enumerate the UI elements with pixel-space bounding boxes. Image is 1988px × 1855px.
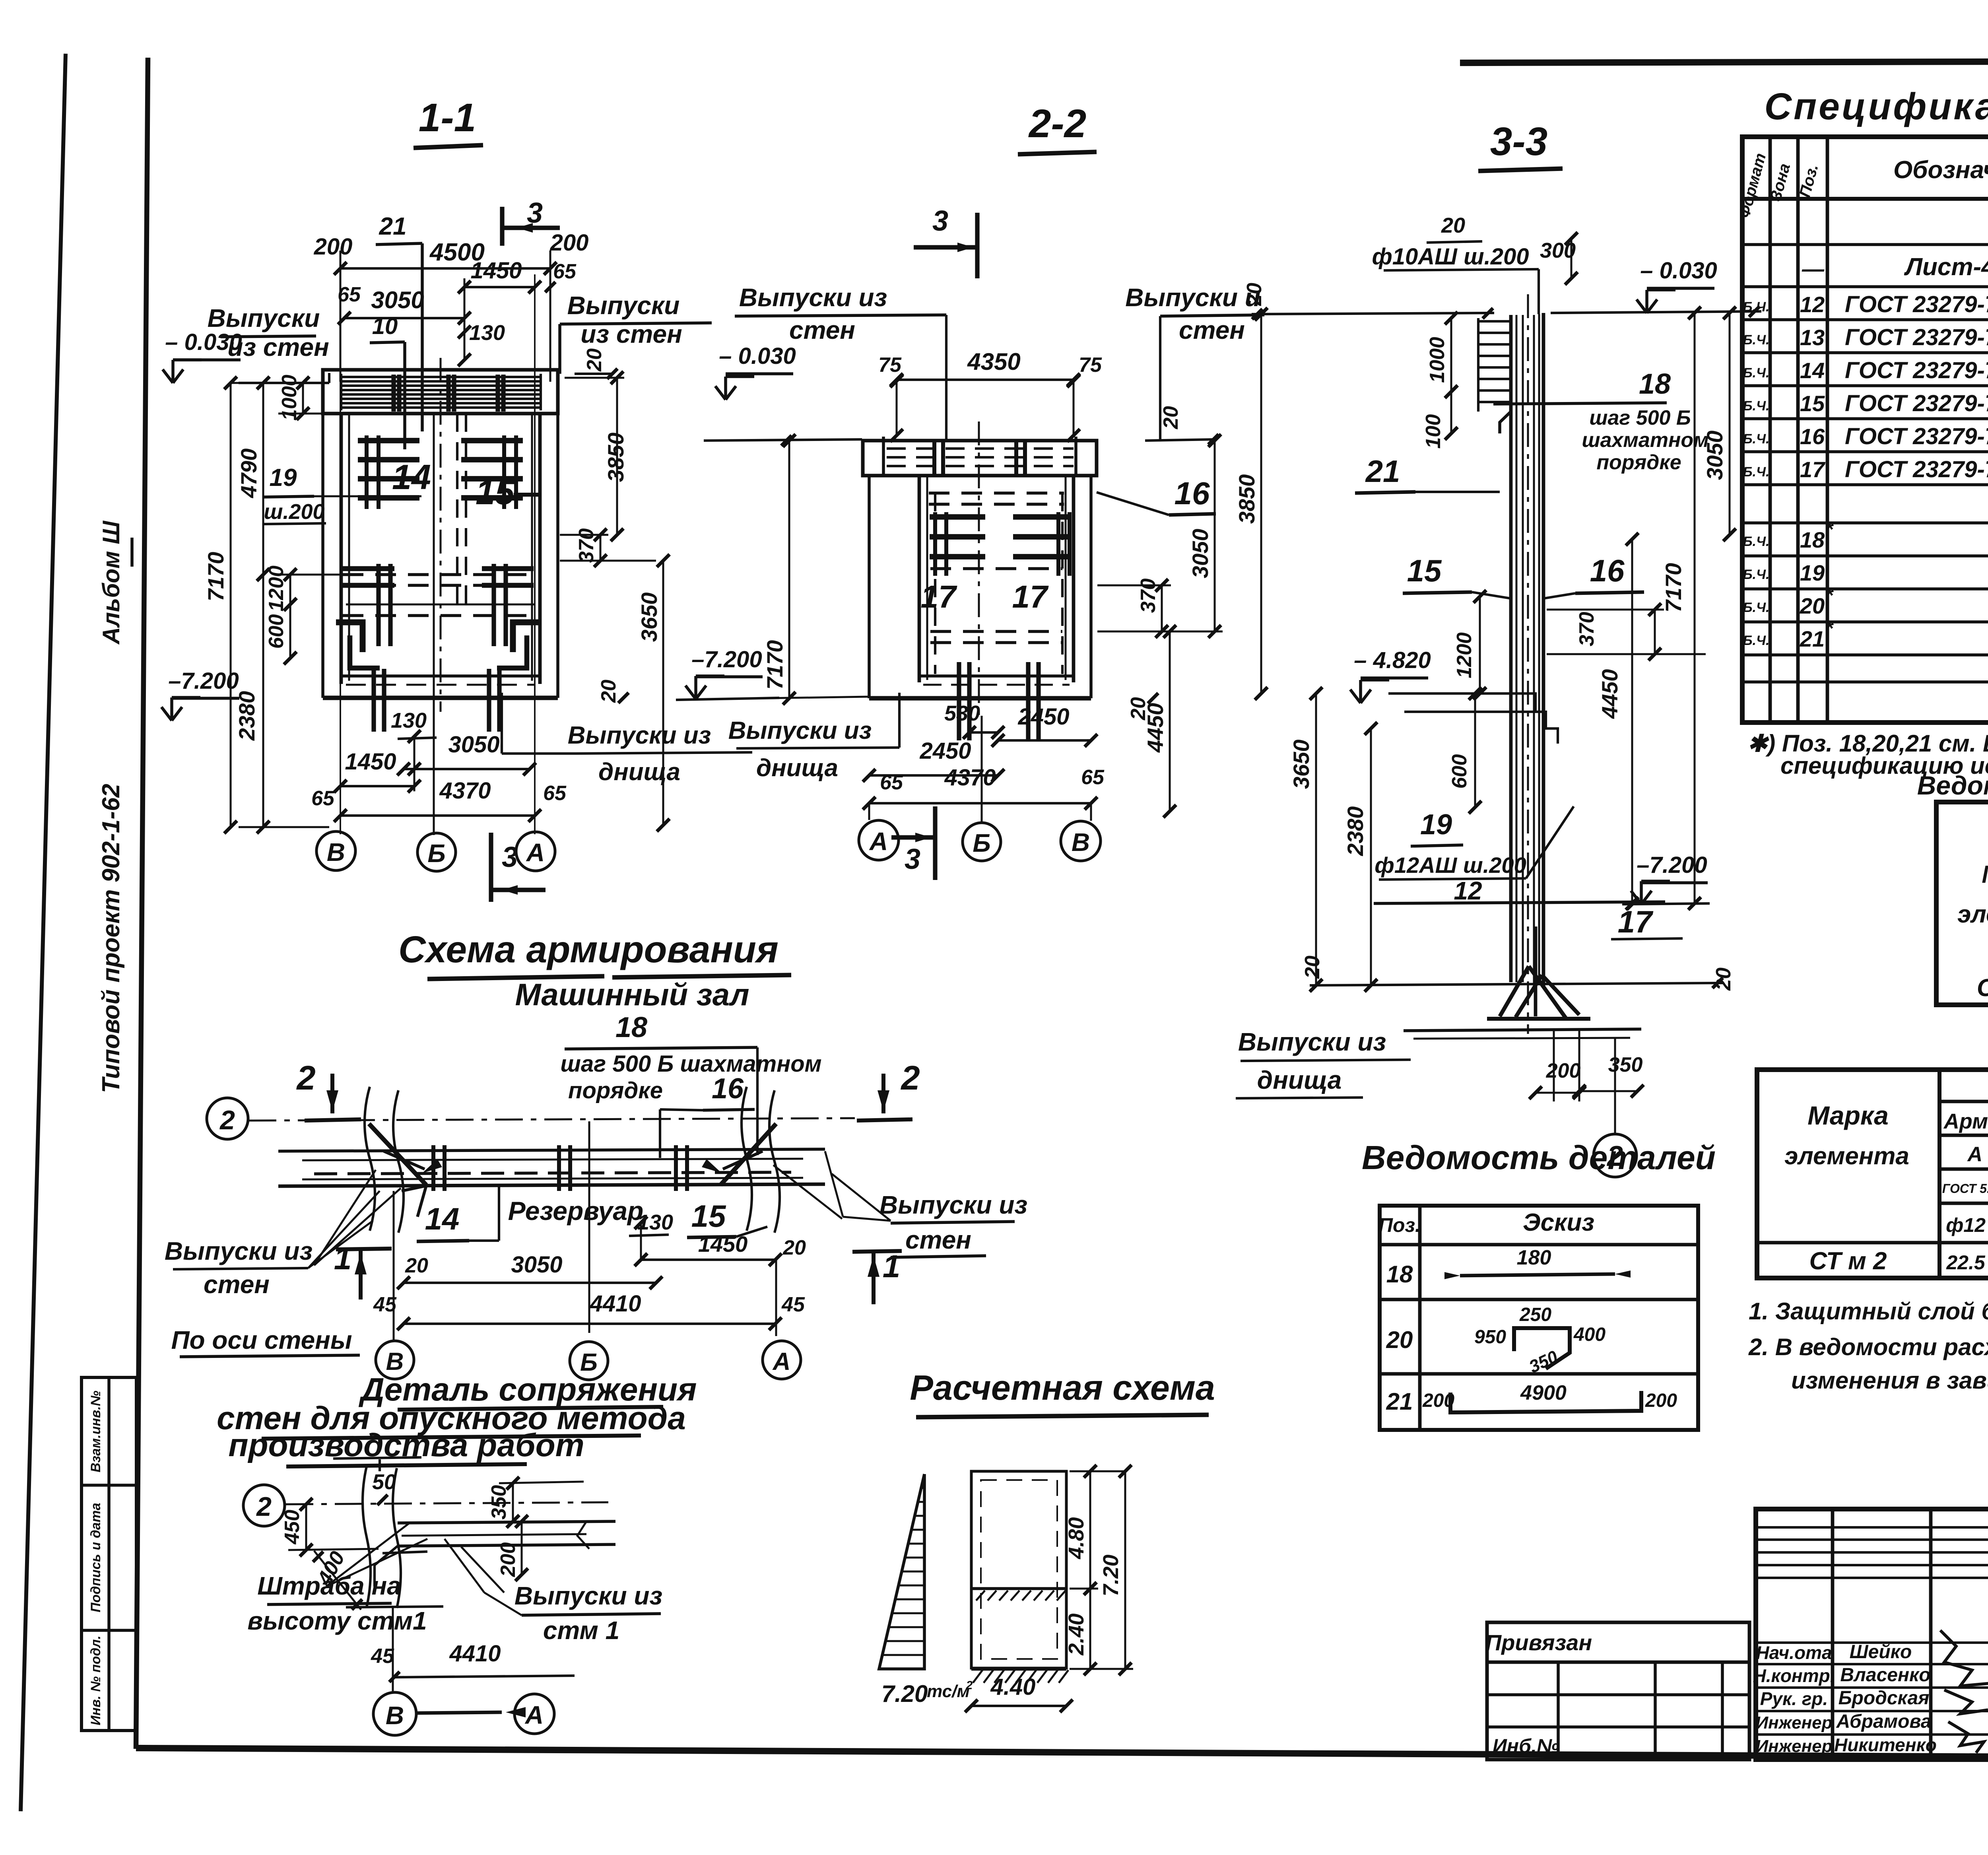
- svg-text:20: 20: [583, 348, 606, 372]
- svg-text:Штраба на: Штраба на: [257, 1571, 401, 1600]
- svg-text:2: 2: [966, 1679, 973, 1692]
- svg-text:1450: 1450: [698, 1231, 748, 1257]
- svg-text:3: 3: [932, 205, 948, 237]
- svg-text:Б.Ч.: Б.Ч.: [1743, 299, 1769, 315]
- bottom dowel pairs: [371, 669, 376, 732]
- armatura klassa / prokat marki: [1939, 1134, 1988, 1137]
- svg-text:Альбом Ш: Альбом Ш: [98, 521, 124, 645]
- svg-text:Схема армирования: Схема армирования: [398, 928, 779, 971]
- svg-text:370: 370: [575, 528, 598, 563]
- svg-text:3650: 3650: [1289, 740, 1314, 789]
- centre dash-dot 2-2: [978, 422, 980, 716]
- section 2-2 top slab: [863, 441, 1097, 476]
- axis circle V plan: [376, 1341, 414, 1379]
- wall inner faces: [340, 414, 343, 684]
- svg-text:3: 3: [527, 197, 543, 229]
- svg-text:Н.контр.: Н.контр.: [1753, 1665, 1835, 1686]
- axis circle B plan: [570, 1342, 608, 1380]
- plan rebar ticks: [431, 1145, 435, 1191]
- svg-text:7170: 7170: [203, 552, 228, 602]
- svg-text:370: 370: [1575, 612, 1598, 647]
- axis circle V 2-2: [1061, 821, 1101, 861]
- svg-text:200: 200: [1546, 1059, 1581, 1082]
- svg-text:130: 130: [469, 321, 505, 345]
- svg-text:20: 20: [782, 1236, 806, 1259]
- lower dowels right: [491, 564, 496, 646]
- svg-text:ф12АШ ш.200: ф12АШ ш.200: [1375, 853, 1526, 878]
- svg-text:–7.200: –7.200: [1637, 852, 1707, 878]
- svg-text:1: 1: [883, 1249, 901, 1284]
- svg-text:3: 3: [502, 841, 518, 873]
- svg-text:Взам.инв.№: Взам.инв.№: [88, 1391, 103, 1472]
- svg-text:ГОСТ 23279-78: ГОСТ 23279-78: [1845, 324, 1988, 350]
- wall column raschetnaya: [971, 1471, 1066, 1668]
- mesh ladder top 3-3: [1477, 318, 1479, 412]
- gost row prod: [1939, 1202, 1988, 1205]
- axis circle 2 detail: [243, 1485, 285, 1526]
- level line top 3-3 left: [1252, 313, 1494, 314]
- svg-text:Типовой проект 902-1-62: Типовой проект 902-1-62: [97, 784, 125, 1093]
- svg-text:1200: 1200: [265, 565, 288, 612]
- svg-text:ГОСТ 23279-78: ГОСТ 23279-78: [1845, 357, 1988, 383]
- svg-text:днища: днища: [598, 758, 680, 786]
- svg-text:Нач.ота: Нач.ота: [1756, 1642, 1832, 1663]
- svg-text:20: 20: [597, 680, 620, 703]
- svg-text:4790: 4790: [236, 449, 261, 499]
- svg-text:530: 530: [944, 701, 980, 725]
- svg-text:А: А: [524, 1701, 544, 1729]
- detail hatch corner: [375, 1546, 398, 1587]
- svg-text:1-1: 1-1: [419, 95, 476, 140]
- svg-text:Инв. № подл.: Инв. № подл.: [88, 1636, 103, 1725]
- svg-text:200: 200: [1645, 1390, 1677, 1411]
- svg-text:4350: 4350: [967, 348, 1020, 375]
- wall 3-3: [1509, 315, 1513, 982]
- svg-text:250: 250: [1519, 1304, 1551, 1325]
- left gusset plan: [369, 1124, 426, 1185]
- svg-text:В: В: [327, 838, 345, 866]
- specification header row: [1742, 197, 1988, 201]
- svg-text:350: 350: [1608, 1053, 1643, 1076]
- svg-text:22.5: 22.5: [1946, 1251, 1986, 1274]
- svg-text:изменения в зависимости от мар: изменения в зависимости от марки насоса.: [1791, 1367, 1988, 1394]
- svg-text:100: 100: [1422, 414, 1445, 449]
- svg-text:А: А: [772, 1348, 791, 1375]
- svg-text:*: *: [1825, 584, 1834, 607]
- svg-text:Б.Ч.: Б.Ч.: [1743, 365, 1769, 381]
- svg-text:Шейко: Шейко: [1850, 1641, 1912, 1663]
- svg-text:14: 14: [1800, 358, 1825, 383]
- svg-text:1450: 1450: [345, 749, 396, 775]
- wall foot bracing 3-3: [1500, 966, 1529, 1016]
- level line -7.200 3-3: [1622, 903, 1710, 904]
- svg-text:Б.Ч.: Б.Ч.: [1743, 567, 1769, 582]
- svg-text:17: 17: [1800, 457, 1826, 482]
- svg-text:Б.Ч.: Б.Ч.: [1743, 332, 1769, 348]
- bottom slab lines 2-2: [919, 674, 1074, 678]
- svg-text:200: 200: [550, 230, 589, 256]
- bottom line 3-3 left: [1310, 983, 1723, 985]
- axis circle A detail: [514, 1694, 554, 1734]
- svg-text:17: 17: [1012, 579, 1049, 614]
- svg-text:15: 15: [1407, 553, 1442, 588]
- svg-text:Резервуар: Резервуар: [508, 1196, 644, 1226]
- svg-text:4450: 4450: [1597, 669, 1622, 719]
- svg-text:Марка: Марка: [1982, 861, 1988, 888]
- svg-text:75: 75: [878, 354, 902, 377]
- drawing frame left border: [136, 58, 148, 1749]
- svg-text:18: 18: [615, 1012, 647, 1043]
- lower dowels left: [376, 564, 381, 646]
- svg-text:130: 130: [391, 709, 427, 732]
- svg-text:4370: 4370: [944, 765, 996, 791]
- svg-text:4.40: 4.40: [990, 1674, 1036, 1700]
- interior dashed mesh verticals: [456, 414, 458, 604]
- dia row prod: [1939, 1241, 1988, 1245]
- svg-text:16: 16: [1800, 424, 1825, 449]
- svg-text:Инб.№: Инб.№: [1493, 1735, 1559, 1757]
- svg-text:Выпуски и: Выпуски и: [1125, 283, 1260, 312]
- svg-text:ГОСТ 5.1459-72: ГОСТ 5.1459-72: [1942, 1181, 1988, 1196]
- svg-text:Б.Ч.: Б.Ч.: [1743, 431, 1769, 447]
- svg-text:65: 65: [311, 787, 335, 810]
- bottom dowels 2-2: [957, 662, 961, 740]
- svg-text:днища: днища: [1257, 1066, 1342, 1094]
- privyazan table: [1487, 1622, 1749, 1760]
- svg-text:18: 18: [1800, 527, 1825, 552]
- level line -0.030 sec 1-1: [239, 382, 329, 384]
- svg-text:–7.200: –7.200: [168, 668, 239, 694]
- svg-text:19: 19: [270, 464, 297, 491]
- title block name rows: [1756, 1641, 1988, 1644]
- svg-text:стм 1: стм 1: [543, 1616, 619, 1645]
- svg-text:ГОСТ 23279-78: ГОСТ 23279-78: [1845, 291, 1988, 317]
- svg-text:20: 20: [1800, 593, 1825, 618]
- svg-text:Б.Ч.: Б.Ч.: [1743, 464, 1769, 480]
- svg-text:2-2: 2-2: [1028, 101, 1087, 146]
- svg-text:шаг 500 Б: шаг 500 Б: [1589, 406, 1691, 429]
- svg-text:В: В: [386, 1701, 404, 1730]
- svg-text:45: 45: [781, 1293, 805, 1316]
- axis circle B 2-2: [963, 823, 1001, 861]
- right break curve plan: [742, 1087, 752, 1231]
- svg-text:200: 200: [497, 1542, 520, 1577]
- svg-text:4.80: 4.80: [1064, 1517, 1088, 1559]
- svg-text:12: 12: [1454, 876, 1482, 905]
- svg-text:Расчетная схема: Расчетная схема: [910, 1368, 1215, 1407]
- svg-text:Выпуски из: Выпуски из: [514, 1581, 662, 1610]
- svg-text:19: 19: [1800, 560, 1825, 585]
- wall centerline axis A: [534, 274, 536, 834]
- svg-text:1000: 1000: [1426, 337, 1449, 383]
- section mark 3 bottom: [489, 833, 493, 902]
- svg-text:600: 600: [1448, 754, 1471, 789]
- svg-text:21: 21: [1386, 1388, 1413, 1415]
- bottom slab lines: [341, 674, 540, 678]
- svg-text:50: 50: [372, 1470, 396, 1494]
- axis circle V: [316, 831, 355, 870]
- svg-text:20: 20: [1159, 406, 1182, 429]
- detail leaders: [326, 1523, 410, 1587]
- svg-text:7170: 7170: [762, 640, 787, 690]
- svg-text:ш.200: ш.200: [264, 500, 324, 524]
- detail horizontal band: [398, 1521, 615, 1523]
- svg-text:Привязан: Привязан: [1485, 1630, 1592, 1655]
- svg-text:Выпуски из: Выпуски из: [728, 717, 872, 744]
- interior lower dashed 2-2: [930, 567, 1062, 570]
- detail axis arrow: [417, 1712, 502, 1713]
- svg-text:– 0.030: – 0.030: [165, 329, 242, 355]
- vedomost raskhoda table frame: [1936, 802, 1988, 1005]
- svg-text:стен: стен: [1179, 316, 1245, 344]
- svg-text:элемента: элемента: [1784, 1142, 1909, 1170]
- svg-text:Обозначение: Обозначение: [1893, 156, 1988, 184]
- svg-text:400: 400: [1573, 1324, 1606, 1345]
- sheet scan edge: [21, 54, 66, 1811]
- drawing frame top border: [1460, 60, 1988, 63]
- svg-text:Бродская: Бродская: [1839, 1688, 1930, 1709]
- svg-text:– 4.820: – 4.820: [1354, 647, 1431, 673]
- svg-text:А: А: [869, 827, 888, 856]
- axis circle A 2-2: [859, 820, 899, 860]
- plan axis lines: [393, 1191, 395, 1341]
- step in wall 3-3: [1500, 412, 1511, 433]
- svg-text:стен: стен: [789, 316, 855, 344]
- svg-text:Б: Б: [973, 829, 990, 857]
- title block left thin rows: [1756, 1526, 1988, 1529]
- svg-text:20: 20: [1127, 697, 1150, 721]
- svg-text:2: 2: [900, 1059, 920, 1097]
- svg-text:СТ м 2: СТ м 2: [1809, 1247, 1887, 1275]
- svg-text:3-3: 3-3: [1490, 119, 1548, 164]
- svg-text:Б.Ч.: Б.Ч.: [1743, 398, 1769, 414]
- svg-text:14: 14: [425, 1201, 460, 1236]
- svg-text:20: 20: [1243, 283, 1266, 306]
- svg-text:–7.200: –7.200: [691, 647, 762, 672]
- svg-text:65: 65: [880, 771, 903, 794]
- corner hook left: [350, 635, 380, 668]
- svg-text:3650: 3650: [637, 592, 662, 642]
- prodolzhenie table frame: [1757, 1070, 1988, 1278]
- svg-text:элемента: элемента: [1957, 901, 1988, 928]
- svg-text:4410: 4410: [449, 1641, 501, 1667]
- left break curve plan: [365, 1087, 375, 1231]
- svg-text:65: 65: [553, 260, 577, 283]
- svg-text:шаг 500 Б шахматном: шаг 500 Б шахматном: [560, 1051, 821, 1077]
- upper interior dashed 2-2: [929, 491, 1064, 495]
- svg-text:65: 65: [338, 283, 361, 306]
- svg-text:16: 16: [712, 1073, 744, 1105]
- svg-text:ф10АШ ш.200: ф10АШ ш.200: [1372, 244, 1529, 270]
- svg-text:*: *: [1825, 518, 1834, 541]
- svg-text:1: 1: [334, 1241, 352, 1276]
- svg-text:Эскиз: Эскиз: [1523, 1209, 1594, 1236]
- plan wall band lines: [302, 1159, 803, 1160]
- rebar cluster 2-2 left: [930, 514, 985, 520]
- wall column divider: [971, 1587, 1066, 1590]
- svg-text:4370: 4370: [439, 778, 491, 804]
- svg-text:17: 17: [921, 579, 957, 614]
- svg-text:3050: 3050: [371, 287, 424, 313]
- svg-text:Выпуски из: Выпуски из: [739, 283, 887, 312]
- svg-text:65: 65: [543, 782, 567, 805]
- svg-text:Машинный зал: Машинный зал: [515, 977, 749, 1012]
- svg-text:*: *: [1825, 617, 1834, 640]
- svg-text:Б.Ч.: Б.Ч.: [1743, 534, 1769, 549]
- svg-text:ГОСТ 23279-78: ГОСТ 23279-78: [1845, 456, 1988, 482]
- svg-text:Подпись и дата: Подпись и дата: [88, 1503, 103, 1612]
- load triangle: [879, 1474, 924, 1669]
- axis circle V detail: [373, 1692, 416, 1735]
- svg-text:днища: днища: [756, 754, 838, 782]
- svg-text:стен: стен: [204, 1270, 270, 1299]
- wall centre dash-dot 3-3: [1527, 294, 1529, 1034]
- specification row lines: [1742, 243, 1988, 246]
- corner hook right: [497, 635, 527, 668]
- svg-text:По оси стены: По оси стены: [171, 1326, 352, 1354]
- svg-text:Абрамова: Абрамова: [1836, 1711, 1931, 1732]
- vedomost detaley table: [1380, 1206, 1698, 1430]
- svg-text:20: 20: [1301, 956, 1324, 979]
- svg-text:20: 20: [1386, 1327, 1413, 1353]
- svg-text:—: —: [1802, 256, 1825, 281]
- plan small arrows: [422, 1159, 442, 1173]
- svg-text:Рук. гр.: Рук. гр.: [1760, 1688, 1828, 1709]
- svg-text:15: 15: [476, 472, 515, 512]
- rebar cluster left wall: [358, 438, 419, 443]
- svg-text:Лист-4: Лист-4: [1904, 253, 1988, 281]
- rebar cluster 2-2 right: [1013, 514, 1069, 520]
- svg-text:15: 15: [691, 1198, 726, 1233]
- ground hatch under column: [973, 1670, 982, 1683]
- svg-text:13: 13: [1800, 325, 1825, 350]
- svg-text:Б: Б: [427, 839, 445, 868]
- svg-text:В: В: [1072, 828, 1090, 857]
- slab rebar ticks 2-2: [932, 442, 936, 474]
- section 1-1 top slab: [323, 370, 558, 414]
- class row: [1939, 1167, 1988, 1171]
- svg-text:15: 15: [1800, 391, 1825, 416]
- rebar cluster right wall: [461, 438, 523, 443]
- section mark 3 bottom 2-2: [933, 806, 937, 880]
- svg-text:1450: 1450: [470, 258, 522, 284]
- svg-text:ф12: ф12: [1946, 1214, 1986, 1236]
- svg-text:600: 600: [265, 614, 288, 649]
- interior lower dashed rebar lines: [343, 573, 539, 576]
- svg-text:Поз.: Поз.: [1378, 1214, 1421, 1236]
- svg-text:ГОСТ 23279-78: ГОСТ 23279-78: [1845, 423, 1988, 449]
- axis B line (column B): [433, 414, 435, 835]
- svg-text:18: 18: [1639, 368, 1671, 400]
- svg-text:высоту стм1: высоту стм1: [247, 1606, 427, 1635]
- svg-text:3050: 3050: [511, 1252, 562, 1278]
- svg-text:2.40: 2.40: [1064, 1613, 1088, 1655]
- svg-text:65: 65: [1081, 766, 1105, 789]
- margin stamp table: [82, 1377, 136, 1731]
- svg-text:– 0.030: – 0.030: [1640, 258, 1717, 284]
- svg-text:Выпуски из: Выпуски из: [1238, 1028, 1386, 1056]
- svg-text:2450: 2450: [1017, 704, 1069, 730]
- svg-text:19: 19: [1420, 809, 1452, 841]
- svg-text:шахматном: шахматном: [1582, 429, 1708, 452]
- svg-text:– 0.030: – 0.030: [719, 343, 796, 369]
- svg-text:4410: 4410: [589, 1291, 641, 1317]
- svg-text:21: 21: [1365, 454, 1400, 489]
- svg-text:А Ш: А Ш: [1967, 1143, 1988, 1166]
- svg-text:Выпуски: Выпуски: [567, 291, 680, 320]
- svg-text:7.20: 7.20: [881, 1680, 928, 1707]
- svg-text:тс/м: тс/м: [927, 1682, 970, 1701]
- svg-text:950: 950: [1474, 1327, 1506, 1348]
- svg-text:2: 2: [219, 1105, 235, 1135]
- svg-text:21: 21: [1800, 626, 1825, 651]
- svg-text:16: 16: [1175, 476, 1210, 511]
- section 1-1 outer walls: [321, 414, 324, 698]
- axis circle 2 of 3-3: [1614, 1038, 1616, 1133]
- wall centerline axis B: [340, 274, 341, 834]
- svg-text:200: 200: [314, 234, 353, 260]
- axis circle A: [516, 832, 555, 871]
- svg-text:18: 18: [1386, 1261, 1413, 1288]
- svg-text:350: 350: [487, 1485, 511, 1520]
- svg-text:Арматура класса: Арматура класса: [1943, 1109, 1988, 1133]
- specification table frame: [1742, 137, 1988, 723]
- bottom slab band 3-3: [1404, 1029, 1641, 1031]
- vertical dash-dot centre: [440, 358, 442, 712]
- plan wall band top edge: [278, 1149, 825, 1151]
- title block outer: [1756, 1509, 1988, 1760]
- step ledge 3-3: [1388, 693, 1536, 712]
- axis circle B: [417, 833, 456, 871]
- svg-text:Б.Ч.: Б.Ч.: [1743, 633, 1769, 648]
- svg-text:20: 20: [1712, 967, 1735, 991]
- svg-text:180: 180: [1517, 1246, 1551, 1269]
- svg-text:Выпуски из: Выпуски из: [568, 722, 711, 749]
- svg-text:Инженер: Инженер: [1755, 1737, 1832, 1756]
- svg-text:370: 370: [1137, 579, 1160, 613]
- svg-text:А: А: [526, 838, 545, 867]
- svg-text:3850: 3850: [1234, 474, 1259, 524]
- title block left columns: [1831, 1509, 1835, 1758]
- svg-text:Выпуски: Выпуски: [208, 304, 320, 332]
- svg-text:1. Защитный слой бетона для: 1. Защитный слой бетона для рабочей арма…: [1749, 1298, 1988, 1325]
- svg-text:стен: стен: [905, 1226, 971, 1254]
- svg-text:Б.Ч.: Б.Ч.: [1743, 600, 1769, 615]
- axis circle A plan: [763, 1341, 801, 1379]
- svg-text:45: 45: [371, 1645, 394, 1668]
- svg-text:20: 20: [405, 1254, 428, 1277]
- svg-text:Никитенко: Никитенко: [1834, 1735, 1937, 1755]
- svg-text:Выпуски из: Выпуски из: [879, 1191, 1027, 1219]
- svg-text:450: 450: [281, 1510, 304, 1545]
- svg-text:СТм 2: СТм 2: [1977, 974, 1988, 1002]
- svg-text:порядке: порядке: [568, 1078, 663, 1103]
- svg-text:Власенко: Власенко: [1840, 1665, 1930, 1686]
- plan centreline: [248, 1118, 855, 1121]
- detail wall axis line: [392, 1607, 394, 1693]
- svg-text:Выпуски из: Выпуски из: [165, 1237, 313, 1265]
- axis circle 2 plan: [207, 1098, 248, 1139]
- level line top 3-3 right: [1551, 311, 1761, 313]
- svg-text:Ведомость деталей: Ведомость деталей: [1362, 1139, 1716, 1176]
- detail centreline: [285, 1502, 608, 1504]
- svg-text:21: 21: [379, 213, 407, 240]
- svg-text:2450: 2450: [919, 738, 971, 764]
- walls 2-2: [918, 476, 921, 682]
- svg-text:2380: 2380: [1343, 806, 1368, 857]
- section mark 3 top 2-2: [975, 213, 979, 278]
- izdeliya zakladnye header: [1939, 1100, 1988, 1103]
